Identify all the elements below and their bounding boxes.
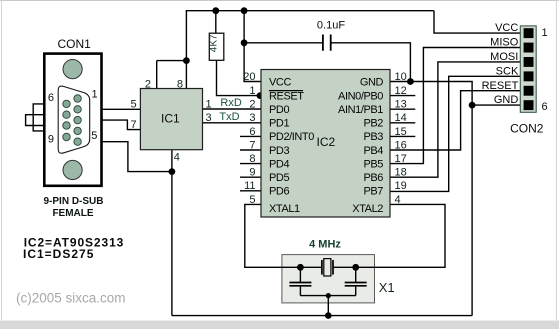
wire cap C1 right to GND node xyxy=(331,43,411,82)
svg-text:5: 5 xyxy=(249,194,255,206)
svg-text:12: 12 xyxy=(395,85,407,97)
wire RxD IC1 pin1 to IC2 pin2 xyxy=(203,108,262,110)
svg-text:7: 7 xyxy=(130,119,136,131)
crystal module X1 symbol xyxy=(289,239,394,295)
svg-text:XTAL1: XTAL1 xyxy=(269,203,300,215)
svg-text:PB7: PB7 xyxy=(363,186,383,198)
svg-text:9: 9 xyxy=(249,167,255,179)
svg-text:IC1: IC1 xyxy=(161,112,180,126)
resistor R1 4K7 xyxy=(209,33,224,60)
svg-text:RxD: RxD xyxy=(220,97,241,109)
svg-text:3: 3 xyxy=(249,112,255,124)
wire ground rail bottom xyxy=(172,315,472,317)
svg-text:8: 8 xyxy=(177,78,183,90)
wire CON1 pin3 to IC1 pin7 xyxy=(78,120,141,130)
svg-text:6: 6 xyxy=(48,92,54,104)
svg-text:11: 11 xyxy=(244,180,255,192)
svg-text:FEMALE: FEMALE xyxy=(52,208,93,219)
wire crystal ground link and tap xyxy=(300,296,355,316)
wire CON1 pin2 to IC1 pin5 xyxy=(78,108,141,110)
IC2 RESET overline xyxy=(269,90,303,92)
svg-text:PD6: PD6 xyxy=(269,186,289,198)
svg-text:AIN0/PB0: AIN0/PB0 xyxy=(338,90,383,102)
wire IC1 pin4 to ground rail xyxy=(171,150,173,316)
svg-text:PB2: PB2 xyxy=(363,118,383,130)
wire SCK CON2 to IC2 pin19 xyxy=(390,76,520,191)
svg-text:(c)2005 sixca.com: (c)2005 sixca.com xyxy=(16,291,126,306)
svg-text:9-PIN D-SUB: 9-PIN D-SUB xyxy=(43,196,103,207)
svg-text:GND: GND xyxy=(494,94,519,106)
svg-text:PB4: PB4 xyxy=(363,145,383,157)
wire 4K7 top to VCC rail xyxy=(215,11,217,34)
wire IC2 left stubs pins 6,7,8,9,11 xyxy=(240,136,261,190)
svg-text:19: 19 xyxy=(395,180,407,192)
svg-text:CON2: CON2 xyxy=(510,122,544,136)
svg-text:7: 7 xyxy=(249,139,255,151)
svg-text:6: 6 xyxy=(542,101,548,113)
svg-text:GND: GND xyxy=(360,76,384,88)
svg-text:15: 15 xyxy=(395,126,407,138)
svg-text:13: 13 xyxy=(395,99,407,111)
svg-text:5: 5 xyxy=(91,130,97,142)
capacitor plates right xyxy=(345,283,367,286)
svg-text:XTAL2: XTAL2 xyxy=(352,203,383,215)
svg-text:PD4: PD4 xyxy=(269,158,289,170)
svg-text:SCK: SCK xyxy=(496,65,519,77)
wire TxD IC1 pin3 to IC2 pin3 xyxy=(203,122,262,124)
capacitor plates left xyxy=(289,283,311,286)
svg-text:RESET: RESET xyxy=(482,80,519,92)
connector CON2 ISP header xyxy=(510,26,547,136)
wire VCC to CON2 pin 1 xyxy=(434,11,520,33)
svg-text:18: 18 xyxy=(395,167,407,179)
svg-text:1: 1 xyxy=(249,85,255,97)
svg-text:1: 1 xyxy=(542,27,548,39)
svg-text:17: 17 xyxy=(395,153,407,165)
wire VCC top rail xyxy=(186,10,434,12)
svg-text:IC1=DS275: IC1=DS275 xyxy=(23,247,94,261)
svg-text:4 MHz: 4 MHz xyxy=(309,239,341,251)
svg-text:PD2/INT0: PD2/INT0 xyxy=(269,131,314,143)
svg-text:VCC: VCC xyxy=(495,22,518,34)
svg-text:PD1: PD1 xyxy=(269,118,289,130)
svg-text:1: 1 xyxy=(206,98,212,110)
wire RESET CON2 to IC2 pin16 xyxy=(390,91,520,150)
IC2 right pin names xyxy=(338,76,383,215)
wire CON1 pin5 ground xyxy=(78,142,172,172)
wire VCC drop to IC1 pins 2,8 xyxy=(157,10,187,89)
wire MOSI CON2 to IC2 pin18 xyxy=(390,62,520,177)
crystal module X1 body xyxy=(282,255,375,303)
svg-text:PD5: PD5 xyxy=(269,172,289,184)
IC2 right pin numbers xyxy=(395,71,407,206)
svg-text:4: 4 xyxy=(395,194,401,206)
svg-text:TxD: TxD xyxy=(219,111,239,123)
svg-text:0.1uF: 0.1uF xyxy=(317,20,345,32)
wire MISO CON2 to IC2 pin17 xyxy=(390,48,520,164)
wire CON1 loop pin6 to pin4 xyxy=(33,104,77,131)
IC2 left pin numbers xyxy=(243,71,255,206)
svg-text:AIN1/PB1: AIN1/PB1 xyxy=(338,104,383,116)
svg-text:9: 9 xyxy=(48,133,54,145)
svg-text:4K7: 4K7 xyxy=(209,34,220,52)
wire XTAL2 IC2 pin4 to crystal xyxy=(333,204,445,267)
svg-text:1: 1 xyxy=(92,89,98,101)
wire cap C1 left xyxy=(244,42,323,44)
svg-text:3: 3 xyxy=(206,112,212,124)
svg-text:2: 2 xyxy=(145,78,151,90)
svg-text:MOSI: MOSI xyxy=(490,51,518,63)
svg-text:6: 6 xyxy=(249,126,255,138)
svg-text:8: 8 xyxy=(249,153,255,165)
svg-text:10: 10 xyxy=(395,71,407,83)
wire CON1 loop pin7 to pin8 xyxy=(26,115,67,126)
wire IC2 pin 10 GND to CON2 GND and ground rail xyxy=(390,82,520,316)
crystal element xyxy=(322,260,333,275)
IC U1 DS275 (IC1) xyxy=(130,78,211,163)
capacitor C1 0.1uF xyxy=(317,20,345,51)
wire XTAL1 IC2 pin5 to crystal xyxy=(245,204,322,267)
wire 4K7 bottom to IC2 pin 1 RESET xyxy=(217,60,262,95)
svg-text:PB6: PB6 xyxy=(363,172,383,184)
svg-text:PD3: PD3 xyxy=(269,145,289,157)
svg-text:PB5: PB5 xyxy=(363,158,383,170)
svg-text:CON1: CON1 xyxy=(58,37,92,51)
svg-text:20: 20 xyxy=(243,71,255,83)
svg-text:VCC: VCC xyxy=(269,76,291,88)
svg-text:16: 16 xyxy=(395,139,407,151)
svg-text:IC2: IC2 xyxy=(317,135,336,149)
svg-text:4: 4 xyxy=(174,152,180,164)
svg-text:2: 2 xyxy=(249,99,255,111)
svg-text:RESET: RESET xyxy=(269,90,304,102)
svg-text:MISO: MISO xyxy=(490,37,519,49)
svg-text:5: 5 xyxy=(130,98,136,110)
IC U2 AT90S2313 (IC2) xyxy=(261,70,390,218)
wire VCC drop to cap node and IC2 pin 20 xyxy=(244,11,261,82)
IC2 left pin names xyxy=(269,76,314,215)
wire IC2 right stubs pins 12,13,14,15 xyxy=(390,96,415,137)
svg-text:X1: X1 xyxy=(379,280,395,295)
wire crystal load capacitors xyxy=(300,267,355,295)
svg-text:14: 14 xyxy=(395,112,407,124)
connector CON1 9-pin D-SUB xyxy=(43,37,103,219)
svg-text:PD0: PD0 xyxy=(269,104,289,116)
svg-text:PB3: PB3 xyxy=(363,131,383,143)
